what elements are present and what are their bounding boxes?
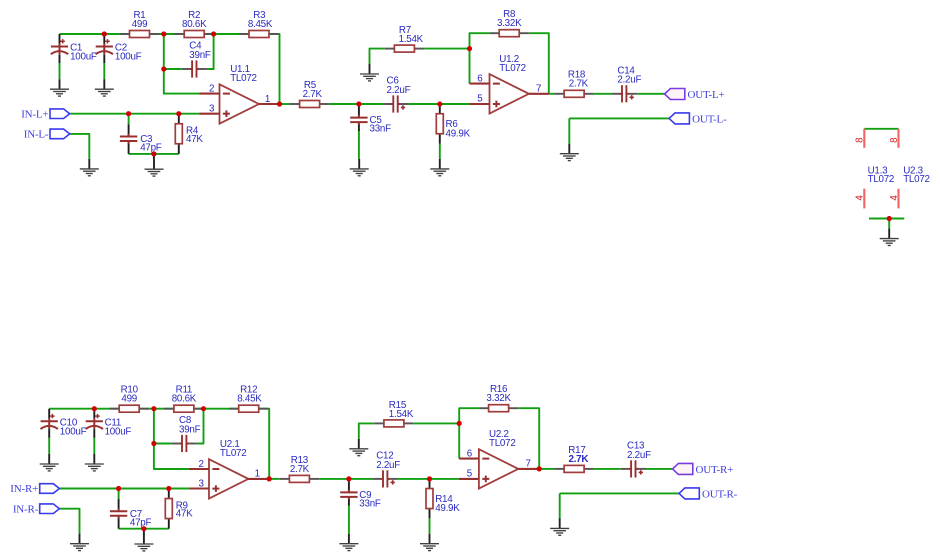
svg-text:49.9K: 49.9K: [446, 128, 471, 139]
svg-text:IN-R-: IN-R-: [13, 503, 39, 515]
svg-text:33nF: 33nF: [370, 124, 392, 135]
svg-text:3.32K: 3.32K: [497, 18, 522, 29]
svg-text:39nF: 39nF: [179, 424, 201, 435]
svg-text:TL072: TL072: [868, 174, 895, 185]
svg-text:1: 1: [255, 469, 260, 480]
svg-text:7: 7: [526, 459, 531, 470]
svg-text:IN-L+: IN-L+: [21, 108, 48, 120]
svg-text:8.45K: 8.45K: [237, 394, 262, 405]
svg-text:OUT-L+: OUT-L+: [688, 89, 725, 101]
svg-text:1: 1: [265, 94, 270, 105]
svg-text:5: 5: [467, 469, 473, 480]
svg-text:47K: 47K: [176, 509, 193, 520]
svg-text:49.9K: 49.9K: [435, 503, 460, 514]
svg-text:3: 3: [198, 478, 204, 489]
svg-text:TL072: TL072: [903, 174, 930, 185]
svg-text:2.2uF: 2.2uF: [617, 75, 641, 86]
svg-text:1.54K: 1.54K: [399, 34, 424, 45]
svg-text:39nF: 39nF: [189, 50, 211, 61]
svg-text:8: 8: [889, 137, 900, 143]
svg-text:2.2uF: 2.2uF: [376, 460, 400, 471]
svg-text:IN-R+: IN-R+: [10, 483, 38, 495]
svg-text:OUT-R+: OUT-R+: [696, 464, 734, 476]
svg-text:2.7K: 2.7K: [569, 454, 589, 465]
svg-text:TL072: TL072: [499, 63, 526, 74]
svg-text:2: 2: [209, 83, 214, 94]
svg-text:TL072: TL072: [489, 438, 516, 449]
svg-text:47pF: 47pF: [130, 518, 152, 529]
svg-text:6: 6: [477, 73, 483, 84]
svg-text:3: 3: [209, 104, 215, 115]
svg-text:TL072: TL072: [220, 448, 247, 459]
svg-text:2.7K: 2.7K: [303, 89, 323, 100]
svg-text:499: 499: [132, 19, 148, 30]
svg-text:4: 4: [889, 195, 900, 201]
svg-text:80.6K: 80.6K: [172, 394, 197, 405]
svg-text:2.7K: 2.7K: [290, 464, 310, 475]
svg-text:80.6K: 80.6K: [182, 19, 207, 30]
svg-text:100uF: 100uF: [60, 426, 87, 437]
svg-text:TL072: TL072: [230, 73, 257, 84]
svg-text:8.45K: 8.45K: [248, 19, 273, 30]
svg-text:100uF: 100uF: [70, 52, 97, 63]
svg-text:100uF: 100uF: [105, 426, 132, 437]
svg-text:499: 499: [121, 394, 137, 405]
svg-text:8: 8: [855, 137, 866, 143]
svg-text:7: 7: [536, 84, 541, 95]
svg-text:3.32K: 3.32K: [486, 393, 511, 404]
svg-text:OUT-R-: OUT-R-: [702, 488, 738, 500]
svg-text:47pF: 47pF: [140, 143, 162, 154]
svg-text:100uF: 100uF: [115, 52, 142, 63]
svg-text:4: 4: [855, 195, 866, 201]
svg-text:OUT-L-: OUT-L-: [692, 113, 727, 125]
svg-text:2.2uF: 2.2uF: [627, 450, 651, 461]
svg-text:IN-L-: IN-L-: [24, 129, 49, 141]
svg-text:33nF: 33nF: [359, 499, 381, 510]
svg-text:2.2uF: 2.2uF: [387, 85, 411, 96]
svg-text:2: 2: [198, 459, 203, 470]
svg-text:1.54K: 1.54K: [389, 409, 414, 420]
svg-text:5: 5: [477, 94, 483, 105]
svg-text:6: 6: [467, 448, 473, 459]
svg-text:47K: 47K: [186, 134, 203, 145]
svg-text:2.7K: 2.7K: [569, 79, 589, 90]
